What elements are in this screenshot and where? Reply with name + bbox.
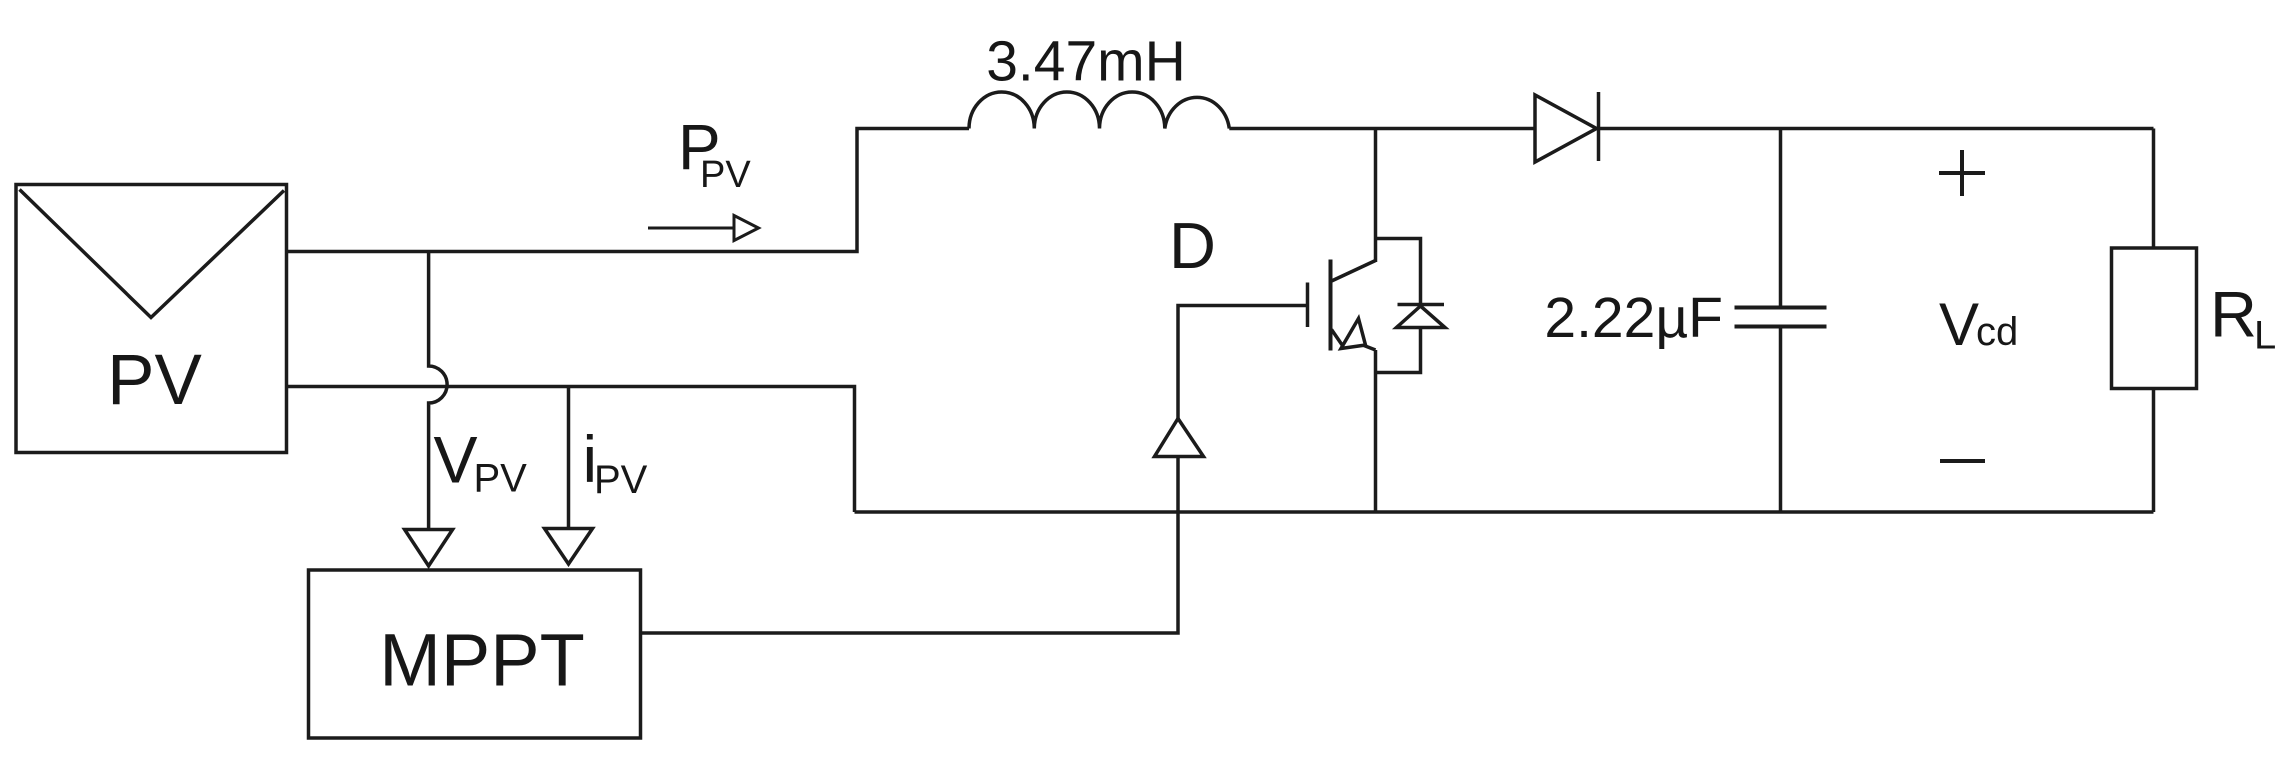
svg-text:V: V [434,423,478,497]
MPPT controller box [309,570,641,738]
power flow arrow PPV [648,227,735,230]
svg-text:V: V [1939,291,1979,358]
IGBT Q1 gate bar [1306,283,1310,328]
svg-text:cd: cd [1976,310,2018,354]
PV panel chevron [20,190,285,318]
svg-text:PV: PV [594,458,648,502]
wire IGBT collector to top bus [1374,129,1378,263]
IGBT Q1 emitter slant [1332,330,1344,348]
wire PV negative terminal to bottom bus [287,387,855,513]
resistor RL box [2112,248,2197,389]
wire load RL to bottom bus [2152,389,2156,513]
output polarity plus sign [1939,150,1985,196]
wire iPV sense tap [567,387,571,530]
freewheel diode D2 triangle [1397,306,1446,328]
power flow label PPV [678,111,751,196]
diode D1 cathode bar [1597,92,1601,161]
wire PV positive terminal to inductor [287,129,970,252]
wire inductor to diode anode [1229,127,1535,131]
iPV label [583,422,648,502]
VPV arrowhead [405,530,453,567]
svg-text:MPPT: MPPT [379,619,585,702]
wire diode cathode to output node [1599,127,2154,131]
resistor label RL [2210,278,2276,358]
inductor L1 [969,92,1229,129]
IGBT Q1 body bar [1329,260,1333,351]
IGBT Q1 collector slant [1331,261,1376,282]
gate signal arrowhead [1155,419,1204,457]
IGBT Q1 emitter lead [1364,346,1376,351]
iPV arrowhead [545,529,593,565]
wire output node down to load RL [2152,129,2156,249]
svg-text:2.22µF: 2.22µF [1544,286,1723,350]
capacitor C1 bottom lead [1779,327,1783,512]
wire gate arrow to IGBT gate [1178,306,1306,419]
wire IGBT emitter to bottom bus [1374,350,1378,512]
power flow arrowhead PPV [734,216,759,241]
wire collector branch to freewheel diode top [1376,239,1421,305]
IGBT Q1 emitter arrow [1341,319,1366,349]
svg-text:D: D [1169,209,1216,282]
svg-text:PV: PV [700,154,751,196]
PV panel box PV [16,185,287,453]
svg-text:PV: PV [474,457,528,501]
capacitor C1 top lead [1779,129,1783,307]
wire VPV sense tap with crossover hop [429,252,448,531]
svg-text:R: R [2210,278,2257,351]
svg-text:L: L [2254,314,2276,358]
svg-text:3.47mH: 3.47mH [986,30,1186,94]
wire MPPT output to gate arrow [641,457,1179,634]
diode D1 triangle [1535,95,1597,162]
bottom bus wire [855,510,2154,514]
wire freewheel diode bottom to emitter [1376,328,1421,373]
output polarity minus sign [1940,459,1985,463]
freewheel diode D2 cathode bar [1398,303,1445,307]
capacitor C1 plates [1735,308,1827,327]
svg-text:PV: PV [107,341,202,420]
VPV label [434,423,528,501]
output voltage label Vcd [1939,291,2018,358]
